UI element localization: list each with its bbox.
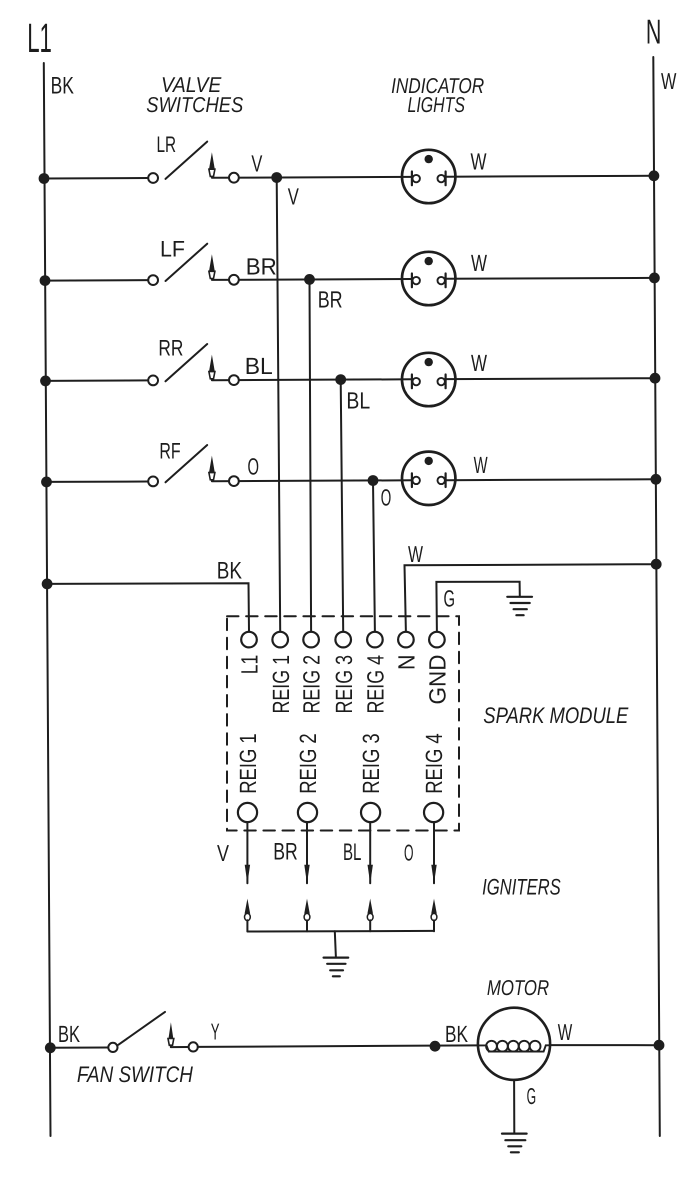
wire motor G to ground bbox=[513, 1080, 515, 1134]
svg-text:LR: LR bbox=[157, 132, 177, 157]
header SPARK MODULE bbox=[483, 703, 629, 728]
lamp DS3 filament dot bbox=[425, 358, 433, 366]
svg-text:REIG 3: REIG 3 bbox=[331, 655, 357, 714]
svg-text:G: G bbox=[527, 1083, 537, 1109]
label W lamp DS1 bbox=[471, 149, 488, 175]
lamp DS4 filament dot bbox=[425, 457, 433, 465]
svg-text:RF: RF bbox=[159, 438, 180, 463]
switch RF label bbox=[159, 438, 180, 463]
label BR rung 2 wire colour bbox=[246, 254, 277, 280]
svg-text:L1: L1 bbox=[27, 15, 52, 61]
igniter E3 electrode wire (bottom) bbox=[369, 920, 371, 931]
junction node N rail bottom rung bbox=[654, 1040, 665, 1051]
svg-text:W: W bbox=[408, 541, 423, 567]
igniter E4 upper electrode arrow bbox=[431, 865, 436, 884]
motor M1 body bbox=[478, 1008, 550, 1080]
junction node L1 rail rung 1 bbox=[39, 173, 50, 184]
pin label REIG 2 bbox=[299, 655, 325, 714]
junction node N rail rung 2 bbox=[649, 273, 660, 284]
pin label REIG 3 bottom bbox=[358, 733, 384, 794]
svg-text:BK: BK bbox=[58, 1021, 80, 1047]
label BL below junction rung 3 bbox=[346, 388, 370, 414]
switch FAN momentary arrow bbox=[169, 1022, 174, 1038]
header INDICATOR LIGHTS bbox=[391, 74, 484, 117]
svg-text:W: W bbox=[474, 452, 489, 478]
igniter E3 lower electrode arrow bbox=[367, 899, 373, 914]
wire rung 3: lamp DS3 to N rail bbox=[446, 377, 655, 380]
switch LR contact circle left bbox=[148, 173, 158, 183]
wire BR drop: rung 2 junction to REIG 2 terminal bbox=[310, 279, 312, 631]
motor M1 winding lead-in bbox=[478, 1045, 550, 1051]
junction node N rail rung 3 bbox=[650, 373, 661, 384]
junction node L1 rail BK feed bbox=[42, 579, 53, 590]
igniter E1 electrode wire (top) bbox=[246, 822, 248, 883]
label O rung 4 wire colour bbox=[248, 454, 260, 480]
svg-text:O: O bbox=[248, 454, 260, 480]
switch LR contact circle right bbox=[229, 173, 239, 183]
motor M1 winding coil bbox=[486, 1041, 540, 1052]
junction node rung 4 bbox=[368, 475, 379, 486]
svg-text:BR: BR bbox=[273, 839, 298, 866]
indicator light DS3 body bbox=[402, 353, 455, 406]
wire G: GND terminal to chassis ground bbox=[436, 582, 519, 632]
spark module terminal REIG 2 (top) bbox=[303, 632, 319, 648]
label G motor ground bbox=[527, 1083, 537, 1109]
wire motor to N rail bbox=[550, 1044, 659, 1046]
label BK fan switch bbox=[58, 1021, 80, 1047]
svg-text:REIG 1: REIG 1 bbox=[268, 655, 294, 714]
spark module U1 dashed enclosure bbox=[227, 616, 459, 830]
lamp DS1 filament dot bbox=[425, 155, 433, 163]
svg-text:SWITCHES: SWITCHES bbox=[146, 93, 243, 117]
wire BL drop: rung 3 junction to REIG 3 terminal bbox=[341, 380, 344, 632]
pin label N bbox=[394, 655, 420, 671]
label W lamp DS3 bbox=[471, 350, 488, 376]
junction node rung 2 bbox=[304, 274, 315, 285]
switch LR label bbox=[157, 132, 177, 157]
spark module terminal REIG 3 (top) bbox=[335, 632, 351, 648]
switch RF contact circle right bbox=[229, 476, 239, 486]
igniter E1 electrode wire (bottom) bbox=[246, 920, 248, 931]
svg-text:MOTOR: MOTOR bbox=[487, 976, 549, 1000]
junction node L1 rail rung 3 bbox=[40, 376, 51, 387]
svg-text:REIG 4: REIG 4 bbox=[363, 655, 389, 714]
switch FAN contact circle left bbox=[108, 1043, 117, 1052]
svg-text:GND: GND bbox=[425, 655, 451, 705]
ground symbol igniter bus bbox=[324, 958, 349, 977]
igniter E4 electrode wire (top) bbox=[433, 822, 435, 883]
switch LF contact circle left bbox=[148, 275, 158, 285]
svg-text:LF: LF bbox=[160, 237, 185, 262]
switch LF contact circle right bbox=[229, 275, 239, 285]
svg-text:FAN SWITCH: FAN SWITCH bbox=[77, 1062, 194, 1087]
svg-text:N: N bbox=[394, 655, 420, 671]
label V below junction rung 1 bbox=[288, 183, 299, 209]
switch LF momentary arrow bbox=[209, 254, 215, 271]
label W lamp DS4 bbox=[474, 452, 489, 478]
switch RF momentary arrow bbox=[209, 456, 215, 473]
svg-text:W: W bbox=[471, 350, 488, 376]
label BL igniter 3 bbox=[343, 839, 361, 866]
svg-text:REIG 3: REIG 3 bbox=[358, 733, 384, 794]
wire bottom rung: L1 rail to fan switch bbox=[50, 1047, 108, 1049]
lamp DS1 right terminal bbox=[445, 172, 447, 186]
svg-text:O: O bbox=[381, 485, 392, 511]
switch LR momentary arrow bbox=[209, 152, 215, 169]
lamp DS2 right terminal bbox=[445, 274, 447, 288]
svg-text:W: W bbox=[661, 68, 677, 94]
pin label REIG 4 bbox=[363, 655, 389, 714]
switch RF contact circle left bbox=[148, 477, 158, 487]
switch RR momentary arrow bbox=[209, 355, 215, 372]
svg-text:RR: RR bbox=[158, 336, 183, 361]
header MOTOR bbox=[487, 976, 549, 1000]
indicator light DS4 body bbox=[402, 452, 455, 505]
igniter E2 lower electrode arrow bbox=[304, 899, 310, 914]
junction node N rail rung 4 bbox=[651, 474, 662, 485]
svg-text:REIG 4: REIG 4 bbox=[421, 733, 447, 794]
label V rung 1 wire colour bbox=[251, 151, 262, 177]
pin label REIG 1 bottom bbox=[235, 733, 261, 794]
junction node L1 rail rung 2 bbox=[40, 275, 51, 286]
switch RR contact circle right bbox=[229, 375, 239, 385]
pin label REIG 4 bottom bbox=[421, 733, 447, 794]
svg-text:REIG 2: REIG 2 bbox=[295, 733, 321, 794]
switch LR blade bbox=[166, 142, 208, 179]
spark module terminal N (top) bbox=[398, 632, 414, 648]
label O below junction rung 4 bbox=[381, 485, 392, 511]
ground symbol spark module bbox=[507, 597, 532, 615]
svg-text:N: N bbox=[646, 13, 662, 51]
spark module terminal REIG 2 (bottom) bbox=[298, 803, 317, 822]
igniter E4 lower electrode arrow bbox=[431, 899, 437, 914]
pin label L1 bbox=[237, 655, 263, 675]
label W spark feed bbox=[408, 541, 423, 567]
svg-text:G: G bbox=[444, 586, 456, 612]
switch FAN blade bbox=[118, 1012, 165, 1045]
svg-text:REIG 1: REIG 1 bbox=[235, 733, 261, 794]
spark module terminal REIG 4 (top) bbox=[367, 632, 383, 648]
igniter E4 electrode wire (bottom) bbox=[433, 920, 435, 931]
igniter E2 upper electrode arrow bbox=[304, 865, 309, 884]
label BK left rail bbox=[51, 72, 74, 99]
label BR igniter 2 bbox=[273, 839, 298, 866]
switch LF blade bbox=[166, 244, 208, 281]
pin label REIG 3 bbox=[331, 655, 357, 714]
label BK motor wire bbox=[445, 1021, 468, 1047]
label BL rung 3 wire colour bbox=[245, 353, 273, 379]
svg-text:W: W bbox=[558, 1019, 573, 1045]
wire rung 3: switch to lamp DS3 bbox=[212, 378, 412, 381]
label W right rail bbox=[661, 68, 677, 94]
label W lamp DS2 bbox=[471, 250, 488, 276]
svg-text:L1: L1 bbox=[237, 655, 263, 675]
svg-text:BR: BR bbox=[318, 287, 343, 313]
label BR below junction rung 2 bbox=[318, 287, 343, 313]
junction node N rail rung 1 bbox=[649, 170, 660, 181]
switch RR label bbox=[158, 336, 183, 361]
pin label REIG 1 bbox=[268, 655, 294, 714]
svg-text:W: W bbox=[471, 250, 488, 276]
svg-text:REIG 2: REIG 2 bbox=[299, 655, 325, 714]
igniter E3 electrode wire (top) bbox=[369, 822, 371, 883]
wire igniter common bus bbox=[247, 930, 434, 933]
wire N right rail bbox=[653, 57, 660, 1136]
wire fan switch to motor bbox=[198, 1045, 478, 1047]
wire rung 2: L1 rail to switch LF bbox=[45, 279, 148, 282]
pin label GND bbox=[425, 655, 451, 705]
ground symbol motor bbox=[502, 1134, 527, 1153]
node L1 label bbox=[27, 15, 52, 61]
wire V drop: rung 1 junction to REIG 1 terminal bbox=[277, 178, 281, 632]
lamp DS2 filament dot bbox=[425, 257, 433, 265]
lamp DS4 left terminal bbox=[411, 473, 413, 487]
wire rung 4: L1 rail to switch RF bbox=[47, 481, 149, 483]
spark module terminal REIG 1 (bottom) bbox=[238, 803, 257, 822]
svg-text:BL: BL bbox=[245, 353, 273, 379]
spark module terminal GND (top) bbox=[429, 632, 445, 648]
label O igniter 4 bbox=[404, 840, 414, 866]
svg-text:BR: BR bbox=[246, 254, 277, 280]
header VALVE SWITCHES bbox=[146, 73, 243, 117]
wire rung 1: L1 rail to switch LR bbox=[44, 177, 148, 180]
header FAN SWITCH bbox=[77, 1062, 194, 1087]
lamp DS3 left terminal bbox=[411, 375, 413, 389]
wire rung 1: lamp DS1 to N rail bbox=[446, 175, 654, 178]
wire rung 4: lamp DS4 to N rail bbox=[446, 478, 656, 481]
indicator light DS1 body bbox=[402, 150, 455, 203]
junction node rung 1 bbox=[271, 172, 282, 183]
wire rung 1: switch to lamp DS1 bbox=[212, 176, 412, 179]
svg-text:SPARK MODULE: SPARK MODULE bbox=[483, 703, 629, 728]
wire O drop: rung 4 junction to REIG 4 terminal bbox=[373, 481, 375, 632]
wire rung 2: switch to lamp DS2 bbox=[212, 278, 412, 281]
switch RR blade bbox=[166, 344, 208, 381]
spark module terminal REIG 3 (bottom) bbox=[361, 803, 380, 822]
junction node BK at motor bbox=[430, 1041, 441, 1052]
svg-text:BK: BK bbox=[217, 558, 242, 585]
switch RF blade bbox=[166, 445, 208, 482]
wire rung 4: switch to lamp DS4 bbox=[212, 479, 412, 482]
junction node L1 rail rung 4 bbox=[41, 477, 52, 488]
igniter E2 electrode wire (bottom) bbox=[306, 920, 308, 931]
spark module terminal REIG 4 (bottom) bbox=[424, 803, 443, 822]
svg-text:W: W bbox=[471, 149, 488, 175]
node N label bbox=[646, 13, 662, 51]
wire W: N rail to spark module N terminal bbox=[405, 564, 657, 632]
svg-text:V: V bbox=[217, 840, 230, 866]
lamp DS4 right terminal bbox=[445, 473, 447, 487]
switch FAN contact circle right bbox=[189, 1042, 198, 1051]
wire BK: L1 rail to spark module L1 terminal bbox=[47, 583, 249, 632]
label BK spark feed bbox=[217, 558, 242, 585]
lamp DS1 left terminal bbox=[411, 172, 413, 186]
label V igniter 1 bbox=[217, 840, 230, 866]
lamp DS3 right terminal bbox=[445, 375, 447, 389]
wire fan switch arrow to contact bbox=[170, 1045, 172, 1047]
svg-text:BK: BK bbox=[51, 72, 74, 99]
svg-text:V: V bbox=[251, 151, 262, 177]
wire L1 left rail bbox=[44, 63, 51, 1136]
switch LF label bbox=[160, 237, 185, 262]
igniter E1 lower electrode arrow bbox=[245, 899, 251, 914]
label G spark ground bbox=[444, 586, 456, 612]
svg-text:BK: BK bbox=[445, 1021, 468, 1047]
pin label REIG 2 bottom bbox=[295, 733, 321, 794]
junction node N rail W feed bbox=[651, 559, 662, 570]
svg-text:O: O bbox=[404, 840, 414, 866]
junction node rung 3 bbox=[335, 374, 346, 385]
indicator light DS2 body bbox=[402, 252, 455, 305]
igniter E2 electrode wire (top) bbox=[306, 822, 308, 883]
svg-text:V: V bbox=[288, 183, 299, 209]
igniter E1 upper electrode arrow bbox=[245, 865, 250, 884]
wire rung 3: L1 rail to switch RR bbox=[46, 379, 149, 382]
igniter E3 upper electrode arrow bbox=[368, 865, 373, 884]
wire igniter bus to ground bbox=[335, 931, 336, 957]
label W motor wire bbox=[558, 1019, 573, 1045]
svg-text:BL: BL bbox=[343, 839, 361, 866]
svg-text:BL: BL bbox=[346, 388, 370, 414]
junction node L1 rail bottom rung bbox=[45, 1042, 56, 1053]
switch RR contact circle left bbox=[148, 376, 158, 386]
spark module terminal L1 (top) bbox=[241, 632, 257, 648]
label Y fan switch wire bbox=[211, 1019, 220, 1045]
spark module terminal REIG 1 (top) bbox=[272, 632, 288, 648]
svg-text:Y: Y bbox=[211, 1019, 220, 1045]
svg-text:LIGHTS: LIGHTS bbox=[408, 93, 466, 117]
svg-text:IGNITERS: IGNITERS bbox=[482, 875, 561, 900]
header IGNITERS bbox=[482, 875, 561, 900]
lamp DS2 left terminal bbox=[411, 274, 413, 288]
wire rung 2: lamp DS2 to N rail bbox=[446, 277, 655, 280]
